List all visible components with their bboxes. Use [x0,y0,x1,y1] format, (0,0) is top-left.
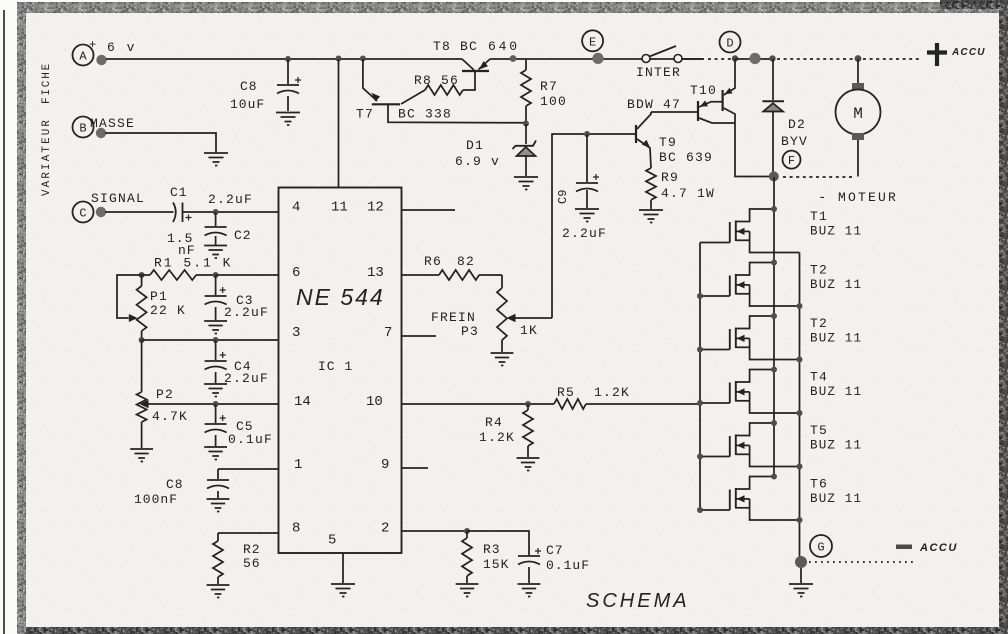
node gate bus junction 3 [697,400,703,406]
capacitor C8b 100nF [134,469,279,507]
svg-text:-: - [818,190,826,206]
capacitor C3 2.2uF [205,275,269,320]
svg-text:T7: T7 [356,107,374,122]
svg-text:D1: D1 [466,138,484,153]
svg-text:BUZ 11: BUZ 11 [810,225,862,239]
wire P3 wiper to T9 base [552,134,636,318]
svg-text:4.7 1W: 4.7 1W [661,186,715,201]
node T10 rail junction [732,55,738,61]
vertical caption FICHE VARIATEUR [41,62,53,196]
node pin11 rail tap [336,56,342,62]
svg-text:11: 11 [331,200,348,216]
svg-text:BC 639: BC 639 [659,150,713,165]
svg-text:BC: BC [460,39,478,54]
svg-text:FREIN: FREIN [431,310,476,325]
node D [720,32,741,53]
svg-text:C9: C9 [556,190,570,204]
transistor T8 BC 640 [433,39,520,71]
wire +6V rail T8 to INTER [490,58,703,60]
terminal B MASSE [73,116,136,138]
capacitor C2 1.5 nF [167,212,252,258]
potentiometer P1 22 K [117,275,186,340]
transistor T9 BC 639 [636,112,713,168]
resistor R4 1.2K [479,404,533,457]
svg-text:1K: 1K [520,323,538,338]
node source junction 5 [797,464,803,470]
svg-text:R3: R3 [483,542,501,557]
svg-text:640: 640 [488,39,520,54]
op-amp IC1 NE544 box [279,188,402,554]
svg-text:B: B [79,122,86,136]
wire pin 2 [402,530,468,532]
scan edge line left [3,10,5,634]
label R1 5.1 K [154,256,232,271]
svg-text:BUZ 11: BUZ 11 [810,332,862,346]
resistor R3 15K [462,531,509,583]
ground C5 [204,447,227,460]
potentiometer P2 4.7K [137,340,188,448]
ground C2 [204,246,227,259]
resistor R2 56 [213,533,279,584]
ground C7 [518,584,541,597]
node drain junction 2 [771,260,777,266]
svg-text:C: C [79,207,86,221]
svg-text:R8 56: R8 56 [414,73,459,88]
ground D1 [514,177,538,190]
svg-text:P2: P2 [156,387,174,402]
node E [582,30,604,64]
label - MOTEUR [818,190,898,206]
svg-text:2.2uF: 2.2uF [562,226,607,241]
svg-text:ACCU: ACCU [919,542,958,554]
ground C3 [204,321,227,334]
node drain junction 4 [771,367,777,373]
svg-text:100: 100 [540,94,567,109]
wire pin 14 wiper [149,403,279,405]
svg-text:4.7K: 4.7K [152,409,188,424]
potentiometer P3 1K FREIN [431,275,552,352]
svg-text:2: 2 [381,521,389,537]
svg-text:6: 6 [292,265,300,281]
svg-text:G: G [817,541,824,555]
node gate bus junction 5 [697,507,703,513]
svg-text:9: 9 [381,457,389,473]
svg-text:5: 5 [328,533,336,549]
svg-text:MOTEUR: MOTEUR [838,190,898,205]
terminal A +6V [73,38,137,66]
svg-text:T10: T10 [690,83,717,98]
svg-text:14: 14 [294,394,311,410]
svg-text:0.1uF: 0.1uF [228,432,273,447]
ACCU + terminal symbol [927,43,986,66]
capacitor C9 2.2uF [556,134,607,241]
svg-text:10: 10 [366,394,383,410]
svg-text:BYV: BYV [781,134,808,149]
wire pin 10 to gate bus [402,403,701,405]
ground G [789,568,813,597]
svg-text:22 K: 22 K [150,303,186,318]
svg-text:T1: T1 [810,209,828,224]
capacitor C4 2.2uF [205,340,269,386]
svg-text:A: A [79,50,87,64]
svg-text:INTER: INTER [636,65,681,80]
resistor R9 4.7 1W [646,168,715,209]
svg-text:T5: T5 [810,423,828,438]
svg-text:R6: R6 [424,254,442,269]
node gate bus junction 2 [697,347,703,353]
svg-text:F: F [788,154,795,168]
ground R4 [517,458,540,471]
transistor T7 BC 338 [356,59,526,123]
wire rail to pin 11 [338,59,340,188]
svg-text:1: 1 [294,457,302,473]
node rail junction [510,55,517,62]
wire pin 5 to ground [342,553,344,583]
svg-text:8: 8 [292,521,300,537]
wire +6V rail left segment [106,58,462,60]
label - ACCU [896,542,958,554]
svg-text:3: 3 [292,325,300,341]
svg-text:C2: C2 [234,228,252,243]
node source junction 3 [797,357,803,363]
wire R1 to pin 6 [216,274,279,276]
ground R3 [456,584,479,597]
node drain junction 5 [771,420,777,426]
svg-text:BC 338: BC 338 [398,107,452,122]
wire rail D segment [735,58,771,60]
svg-text:T9: T9 [659,135,677,150]
svg-text:NE 544: NE 544 [296,284,385,310]
node D2 rail junction [769,55,775,61]
svg-text:C7: C7 [546,543,564,558]
svg-text:2.2uF: 2.2uF [208,192,253,207]
svg-text:P1: P1 [150,289,168,304]
ground P3 [491,353,514,366]
svg-text:MASSE: MASSE [90,116,135,131]
svg-text:BDW 47: BDW 47 [627,97,681,112]
resistor R8 56 [401,71,475,104]
node drain junction 6 [771,474,777,480]
svg-text:C1: C1 [170,185,188,200]
node R3 junction [464,528,470,534]
label SCHEMA [586,590,690,612]
node motor + junction [855,55,862,62]
svg-text:13: 13 [367,265,384,281]
wire INTER to node D area [682,58,733,60]
resistor R1 [142,270,216,280]
diode D2 BYV [762,59,808,176]
svg-text:1.2K: 1.2K [594,385,630,400]
wire C1 to pin 4 [183,211,279,213]
svg-text:6 v: 6 v [107,40,136,55]
svg-text:R7: R7 [540,79,558,94]
svg-text:R2: R2 [243,542,261,557]
ground C8b [207,499,230,512]
svg-text:SIGNAL: SIGNAL [91,191,145,206]
wire MASSE to ground [105,133,216,152]
capacitor C1 2.2uF [105,185,253,222]
capacitor C5 0.1uF [205,404,273,447]
node C5 junction [213,401,219,407]
svg-text:82: 82 [457,254,475,269]
node C9 junction [584,131,590,137]
wire pin 12 stub [402,209,456,211]
ground R9 [639,210,663,223]
svg-text:R5: R5 [557,385,575,400]
node C2 junction [213,209,219,215]
svg-text:T6: T6 [810,477,828,492]
svg-text:D2: D2 [788,117,806,132]
wire drain bus (motor -) [773,177,775,477]
terminal C SIGNAL [73,191,146,223]
svg-text:+: + [89,38,96,52]
transistor T1 BUZ 11 (#1) [700,209,862,253]
svg-text:15K: 15K [483,557,509,572]
transistor T10 BDW 47 darlington [627,59,735,123]
transistor T2 BUZ 11 (#3) [700,316,862,360]
svg-text:T2: T2 [810,263,828,278]
svg-text:M: M [853,105,863,123]
ground pin 5 [331,584,355,597]
node gate bus junction 1 [697,293,703,299]
svg-text:R1 5.1 K: R1 5.1 K [154,256,232,271]
svg-text:4: 4 [292,200,300,216]
svg-text:BUZ 11: BUZ 11 [810,439,862,453]
svg-text:T4: T4 [810,370,828,385]
zener diode D1 6.9 V [455,124,536,176]
svg-text:1.2K: 1.2K [479,430,515,445]
svg-text:R4: R4 [485,415,503,430]
svg-text:E: E [589,35,596,49]
transistor T2 BUZ 11 (#2) [700,263,862,307]
svg-text:2.2uF: 2.2uF [224,371,269,386]
ground R2 [207,585,230,598]
node R1 left [139,272,145,278]
node P1/P2 junction [139,337,145,343]
transistor T6 BUZ 11 (#6) [700,477,862,521]
svg-text:IC 1: IC 1 [318,359,353,374]
wire T10 collector to node F [735,123,772,177]
wire motor minus dashed to F [781,176,852,178]
motor M [836,59,881,177]
svg-text:100nF: 100nF [134,492,178,507]
wire rail dashed to motor [777,58,853,60]
svg-text:BUZ 11: BUZ 11 [810,278,862,292]
ground C4 [204,384,227,397]
ground MASSE [204,153,228,166]
svg-text:2.2uF: 2.2uF [224,305,269,320]
capacitor C7 0.1uF [467,531,590,583]
ground C9 [575,209,599,222]
svg-text:R9: R9 [661,170,679,185]
transistor T4 BUZ 11 (#4) [700,370,862,414]
resistor R5 1.2K [554,385,630,409]
node C4 junction [213,337,219,343]
svg-text:FICHE: FICHE [41,62,53,104]
svg-text:6.9 v: 6.9 v [455,154,500,169]
switch INTER [636,46,682,80]
wire to pin 3 [142,339,279,341]
transistor T5 BUZ 11 (#5) [700,423,862,467]
svg-text:C8: C8 [240,79,258,94]
wire pin 7 stub [402,335,437,337]
node rail blob [749,53,760,64]
svg-text:ACCU: ACCU [951,47,986,58]
wire pin 9 stub [402,467,429,469]
node source junction 6 [797,517,803,523]
wire source bus (battery -) [799,253,801,563]
svg-text:T2: T2 [810,316,828,331]
resistor R7 100 [521,59,567,124]
svg-text:BUZ 11: BUZ 11 [810,385,862,399]
node drain junction 1 [771,206,777,212]
svg-text:56: 56 [243,556,261,571]
ground C8 [276,113,300,126]
node gate bus junction 4 [697,454,703,460]
svg-text:C8: C8 [166,477,184,492]
node source junction 4 [797,410,803,416]
node T7 emitter rail tap [360,56,366,62]
capacitor C8 10uF [230,56,301,112]
svg-text:0.1uF: 0.1uF [546,558,590,573]
wire G dotted to ACCU- [809,561,913,563]
wire rail dashed to ACCU+ [863,58,922,60]
node source junction 2 [797,303,803,309]
node G [795,535,832,568]
node R4 junction [525,401,531,407]
svg-text:D: D [726,37,733,51]
node R7/D1/T7 junction [523,121,529,127]
node drain junction 3 [771,313,777,319]
wire gate bus [699,243,701,511]
resistor R6 82 [402,254,503,280]
svg-text:VARIATEUR: VARIATEUR [41,118,53,196]
svg-text:7: 7 [384,325,392,341]
node F [769,151,801,182]
node R1 right / C3 [213,272,219,278]
svg-text:12: 12 [367,200,384,216]
svg-text:10uF: 10uF [230,97,265,112]
svg-text:SCHEMA: SCHEMA [586,590,690,612]
svg-text:T8: T8 [433,39,451,54]
ground P2 [130,449,153,462]
svg-text:P3: P3 [461,324,479,339]
svg-text:BUZ 11: BUZ 11 [810,492,862,506]
